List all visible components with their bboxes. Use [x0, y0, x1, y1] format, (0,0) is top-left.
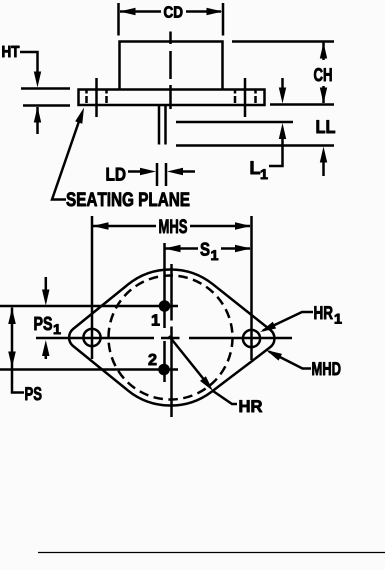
lead end level line — [176, 144, 334, 147]
label CH — [314, 68, 332, 81]
label SEATING PLANE — [66, 192, 189, 206]
PS1 dim arrows — [45, 277, 48, 292]
hole centerline right (side view) — [244, 78, 247, 117]
label MHD — [312, 362, 340, 375]
label PS — [25, 387, 41, 400]
label HR — [240, 400, 263, 412]
label pin 2 — [149, 354, 157, 365]
cap centerline dashed — [169, 32, 172, 110]
label LD — [107, 168, 126, 181]
dimension CD line + arrows — [120, 10, 161, 13]
label L1 — [251, 161, 260, 174]
package vertical centerline — [170, 264, 173, 417]
L1 dim arrows + leader — [281, 78, 284, 91]
L1 level line — [176, 121, 293, 124]
mounting hole right — [243, 330, 260, 347]
label HT — [2, 46, 19, 57]
package outline (bottom view) — [69, 269, 274, 405]
MHS dim line + arrows — [93, 225, 156, 228]
hidden hole left dashes — [87, 91, 107, 104]
footer rule — [38, 552, 385, 554]
LD dim arrows — [128, 170, 145, 173]
HR radius leader — [169, 336, 237, 404]
label MHS — [159, 219, 187, 233]
lead (pin) side view — [159, 106, 166, 145]
MHS extension / right hole centerline — [250, 216, 253, 360]
HT leader + arrows — [20, 52, 38, 74]
HT extension lines — [21, 87, 70, 90]
hidden hole right dashes — [235, 91, 256, 104]
seating plane extension line right — [270, 103, 334, 106]
label PS1 — [34, 317, 51, 330]
dimension CD extension line left — [117, 3, 120, 36]
cap outline (CD body) — [120, 42, 223, 89]
pin 2 — [0, 368, 178, 371]
pin 1 — [0, 305, 178, 308]
label pin 1 — [152, 314, 160, 325]
seating plane leader — [52, 114, 82, 200]
label S1 — [200, 243, 209, 256]
PS dim line + arrows + leader — [11, 308, 14, 369]
label HR1 — [314, 306, 332, 319]
hole centerline left (side view) — [95, 78, 98, 117]
LD dim ticks — [157, 163, 166, 186]
extension line from cap top to CH dim — [232, 40, 334, 43]
dimension CD extension line right — [222, 3, 225, 36]
label CD — [164, 6, 182, 17]
mounting hole left — [83, 329, 100, 346]
MHS extension / left hole centerline — [91, 216, 94, 359]
CH dim arrows — [322, 43, 325, 61]
MHD leader — [269, 352, 311, 369]
cap projection dashed circle — [109, 276, 233, 400]
HR1 leader — [263, 312, 313, 331]
package horizontal centerline — [36, 337, 292, 340]
LL dim lower arrow — [322, 160, 325, 176]
pin centerline vertical — [163, 243, 166, 382]
label LL — [317, 120, 335, 133]
flange outline — [79, 90, 265, 106]
S1 dim line + arrows — [165, 247, 198, 250]
